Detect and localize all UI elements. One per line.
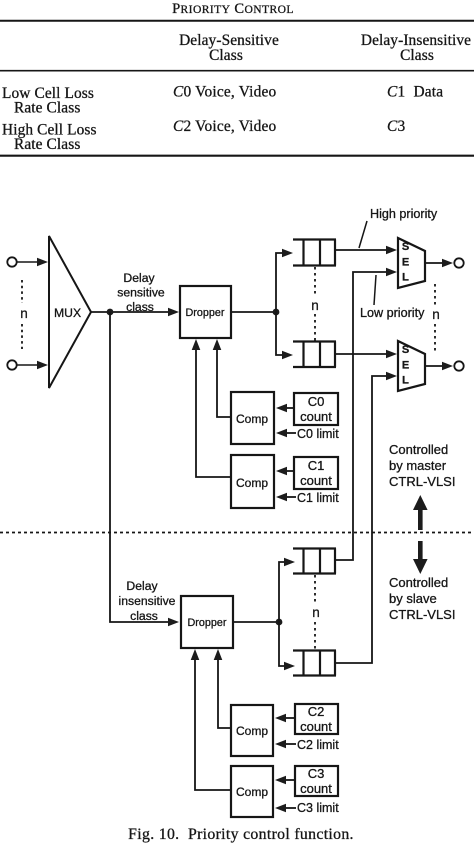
output port circle 1 bbox=[454, 258, 463, 267]
comparator Comp 1 bbox=[231, 392, 274, 444]
svg-text:n: n bbox=[432, 307, 440, 322]
queue ellipsis dotted lower 2 bbox=[314, 622, 316, 650]
svg-text:Controlled: Controlled bbox=[389, 575, 448, 590]
svg-text:MUX: MUX bbox=[54, 306, 81, 320]
wire from queue4 up to SEL2 low input bbox=[336, 376, 387, 663]
svg-text:C1 Data: C1 Data bbox=[387, 84, 443, 101]
wire Dropper1 output bbox=[231, 311, 276, 313]
svg-text:by master: by master bbox=[389, 458, 447, 473]
label Delay sensitive class bbox=[117, 271, 165, 314]
comparator Comp 4 bbox=[231, 766, 273, 817]
svg-text:Controlled: Controlled bbox=[389, 442, 448, 457]
svg-text:CTRL-VLSI: CTRL-VLSI bbox=[389, 607, 455, 622]
svg-text:Comp: Comp bbox=[236, 785, 268, 799]
leader line High priority bbox=[359, 221, 367, 248]
svg-text:insensitive: insensitive bbox=[119, 594, 176, 608]
wire comp3 to dropper2 bbox=[218, 658, 231, 728]
svg-text:L: L bbox=[402, 272, 409, 284]
wire C2 count to Comp3 bbox=[285, 717, 295, 719]
wire comp2 to dropper1 bbox=[196, 348, 231, 477]
comparator Comp 2 bbox=[231, 455, 274, 508]
wire comp1 to dropper1 bbox=[217, 348, 231, 417]
svg-text:Low priority: Low priority bbox=[360, 306, 425, 320]
svg-text:class: class bbox=[126, 300, 154, 314]
svg-text:Class: Class bbox=[400, 47, 434, 64]
output dotted ellipsis lower bbox=[434, 324, 436, 352]
svg-text:C2: C2 bbox=[308, 704, 325, 719]
queue ellipsis dotted (lower pair) bbox=[314, 575, 316, 603]
register box C0 count bbox=[294, 393, 338, 425]
svg-text:C3: C3 bbox=[308, 766, 325, 781]
wire Dropper2 output bbox=[233, 621, 279, 623]
svg-text:PRIORITY CONTROL: PRIORITY CONTROL bbox=[172, 1, 294, 17]
register box C3 count bbox=[295, 766, 338, 796]
thick arrow down (slave) bbox=[413, 541, 428, 574]
input dotted ellipsis upper bbox=[21, 280, 23, 303]
table title PRIORITY CONTROL bbox=[172, 1, 294, 17]
svg-text:n: n bbox=[312, 605, 320, 620]
wire C3 limit arrow bbox=[285, 807, 296, 809]
svg-text:by slave: by slave bbox=[389, 591, 437, 606]
register box C1 count bbox=[294, 457, 338, 489]
svg-text:E: E bbox=[402, 257, 409, 269]
svg-text:count: count bbox=[300, 781, 332, 796]
wire C0 limit arrow bbox=[285, 432, 296, 434]
svg-text:C1 limit: C1 limit bbox=[297, 491, 339, 505]
dropper box 2 bbox=[181, 596, 233, 648]
output port circle 2 bbox=[454, 361, 463, 370]
wire queue1 to SEL1 bbox=[336, 249, 387, 251]
junction dot after Dropper1 bbox=[273, 309, 280, 316]
wire main vertical from MUX node to lower dropper bbox=[110, 312, 170, 622]
queue ellipsis dotted lower bbox=[314, 314, 316, 341]
svg-text:C0: C0 bbox=[308, 394, 325, 409]
table row High Cell Loss Rate Class bbox=[2, 122, 97, 154]
svg-text:CTRL-VLSI: CTRL-VLSI bbox=[389, 474, 455, 489]
wire C1 count to Comp2 bbox=[285, 470, 294, 472]
table header Delay-Insensitive Class bbox=[361, 32, 471, 64]
svg-text:S: S bbox=[402, 344, 409, 356]
svg-text:sensitive: sensitive bbox=[117, 286, 165, 300]
input port circle 2 bbox=[7, 360, 16, 369]
table row Low Cell Loss Rate Class bbox=[2, 85, 94, 117]
svg-text:C3 limit: C3 limit bbox=[297, 801, 339, 815]
svg-text:Fig. 10. Priority control fun: Fig. 10. Priority control function. bbox=[128, 826, 354, 843]
svg-text:Dropper: Dropper bbox=[185, 307, 224, 319]
junction dot after Dropper2 bbox=[276, 619, 283, 626]
svg-text:count: count bbox=[300, 719, 332, 734]
svg-text:Class: Class bbox=[209, 47, 243, 64]
wire C1 limit arrow bbox=[285, 496, 296, 498]
svg-text:Comp: Comp bbox=[236, 724, 268, 738]
wire comp4 to dropper2 bbox=[195, 658, 231, 790]
table top rule bbox=[0, 20, 474, 22]
svg-text:Rate Class: Rate Class bbox=[14, 100, 80, 117]
svg-text:C2 limit: C2 limit bbox=[297, 738, 339, 752]
svg-text:Comp: Comp bbox=[236, 476, 268, 490]
svg-text:count: count bbox=[300, 473, 332, 488]
thick arrow up (master) bbox=[413, 495, 428, 530]
table mid rule bbox=[0, 70, 474, 72]
table header Delay-Sensitive Class bbox=[179, 32, 279, 64]
label Controlled by slave CTRL-VLSI bbox=[389, 575, 455, 622]
svg-text:n: n bbox=[20, 306, 28, 321]
wire SEL2 output bbox=[425, 365, 444, 367]
register box C2 count bbox=[295, 704, 338, 734]
svg-text:Delay: Delay bbox=[126, 579, 158, 593]
svg-text:Rate Class: Rate Class bbox=[14, 136, 80, 153]
wire branch down to queue 2 bbox=[276, 312, 282, 355]
selector SEL 2 bbox=[398, 341, 425, 391]
MUX triangle bbox=[49, 236, 91, 388]
wire from queue3 up to SEL1 low input bbox=[336, 272, 387, 560]
svg-text:L: L bbox=[402, 375, 409, 387]
queue ellipsis dotted (upper pair) bbox=[314, 267, 316, 297]
comparator Comp 3 bbox=[231, 705, 273, 756]
svg-text:Delay: Delay bbox=[123, 271, 155, 285]
table bottom rule bbox=[0, 155, 474, 157]
input port circle 1 bbox=[7, 257, 16, 266]
svg-text:C1: C1 bbox=[308, 458, 325, 473]
dropper box 1 bbox=[180, 286, 231, 338]
wire queue2 to SEL2 bbox=[336, 353, 387, 355]
wire branch up to queue 1 bbox=[276, 253, 282, 312]
wire MUX output bbox=[91, 311, 170, 313]
svg-text:S: S bbox=[402, 241, 409, 253]
label Controlled by master CTRL-VLSI bbox=[389, 442, 455, 489]
queue buffer 2 bbox=[293, 342, 336, 368]
svg-text:class: class bbox=[130, 609, 158, 623]
selector SEL 1 bbox=[398, 238, 425, 288]
queue buffer 4 bbox=[293, 651, 336, 676]
output dotted ellipsis upper bbox=[434, 284, 436, 305]
leader line Low priority bbox=[374, 275, 376, 305]
svg-text:C0 limit: C0 limit bbox=[297, 427, 339, 441]
wire branch down to queue 4 bbox=[279, 622, 284, 666]
svg-text:Dropper: Dropper bbox=[187, 617, 226, 629]
wire branch up to queue 3 bbox=[279, 562, 284, 622]
wire C0 count to Comp1 bbox=[285, 407, 294, 409]
svg-text:n: n bbox=[311, 298, 319, 313]
queue buffer 3 bbox=[293, 549, 336, 574]
input dotted ellipsis lower bbox=[21, 324, 23, 349]
queue buffer 1 bbox=[293, 240, 336, 266]
wire C3 count to Comp4 bbox=[285, 779, 295, 781]
svg-text:C3: C3 bbox=[387, 118, 405, 135]
wire input 2 to MUX bbox=[17, 364, 39, 366]
wire C2 limit arrow bbox=[285, 743, 296, 745]
svg-text:Comp: Comp bbox=[236, 412, 268, 426]
arrowhead into Dropper 1 bbox=[168, 308, 179, 317]
dashed separator master/slave bbox=[0, 532, 474, 534]
node junction at MUX output bbox=[107, 309, 114, 316]
svg-text:E: E bbox=[402, 360, 409, 372]
wire input 1 to MUX bbox=[17, 261, 39, 263]
svg-text:C0 Voice, Video: C0 Voice, Video bbox=[173, 84, 277, 101]
wire SEL1 output bbox=[425, 262, 444, 264]
svg-text:High priority: High priority bbox=[370, 207, 438, 221]
svg-text:C2 Voice, Video: C2 Voice, Video bbox=[173, 118, 277, 135]
svg-text:count: count bbox=[300, 409, 332, 424]
label Delay insensitive class bbox=[119, 579, 176, 623]
